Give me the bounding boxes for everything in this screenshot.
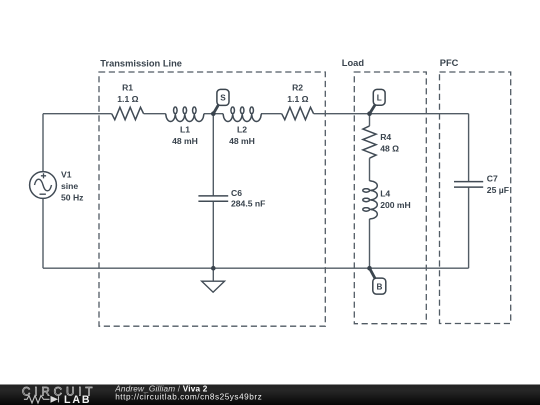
svg-text:50 Hz: 50 Hz	[61, 193, 83, 203]
svg-text:PFC: PFC	[440, 58, 459, 68]
svg-text:S: S	[220, 94, 226, 103]
svg-text:V1: V1	[61, 170, 72, 180]
svg-text:L2: L2	[237, 124, 247, 134]
svg-text:R1: R1	[122, 82, 133, 92]
svg-text:LAB: LAB	[64, 394, 91, 405]
svg-text:C7: C7	[487, 173, 498, 183]
svg-text:B: B	[376, 282, 382, 291]
svg-text:48 Ω: 48 Ω	[380, 144, 399, 154]
svg-text:L4: L4	[380, 188, 390, 198]
svg-text:48 mH: 48 mH	[229, 136, 255, 146]
svg-text:L: L	[377, 94, 382, 103]
svg-text:284.5 nF: 284.5 nF	[231, 198, 265, 208]
svg-text:200 mH: 200 mH	[380, 200, 411, 210]
svg-text:48 mH: 48 mH	[172, 136, 198, 146]
svg-text:1.1 Ω: 1.1 Ω	[287, 94, 308, 104]
svg-text:1.1 Ω: 1.1 Ω	[117, 94, 138, 104]
svg-text:Transmission Line: Transmission Line	[100, 58, 182, 68]
svg-text:C6: C6	[231, 188, 242, 198]
svg-text:R4: R4	[380, 132, 391, 142]
svg-text:R2: R2	[292, 82, 303, 92]
svg-text:http://circuitlab.com/cn8s25ys: http://circuitlab.com/cn8s25ys49brz	[115, 393, 262, 402]
svg-text:25 µF: 25 µF	[487, 185, 509, 195]
svg-text:sine: sine	[61, 181, 78, 191]
svg-text:Load: Load	[342, 58, 365, 68]
svg-text:L1: L1	[180, 124, 190, 134]
